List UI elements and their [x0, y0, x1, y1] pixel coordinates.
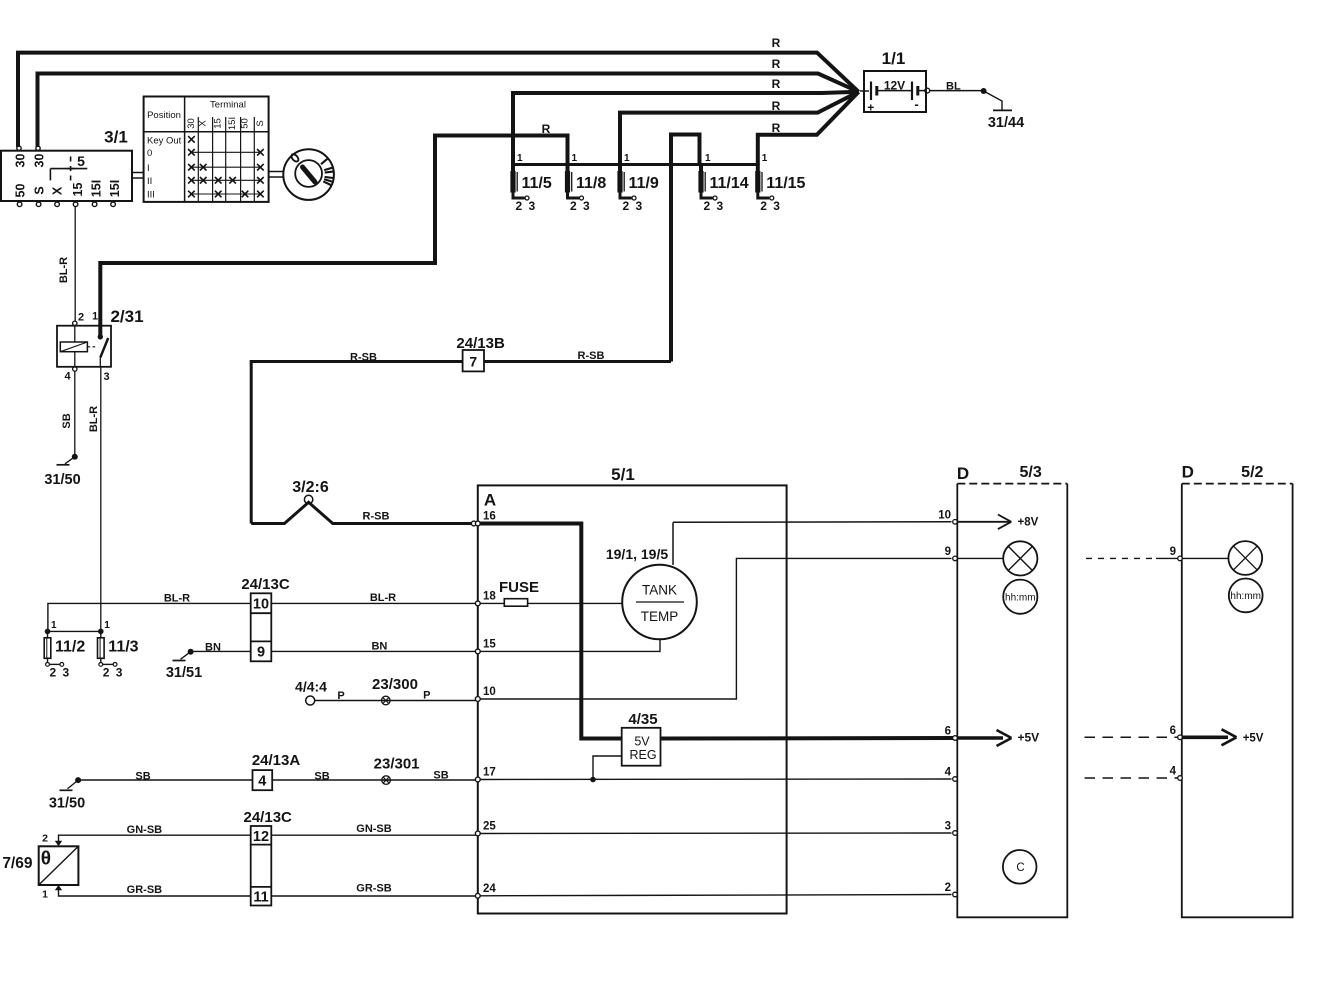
- svg-text:GN-SB: GN-SB: [127, 824, 163, 836]
- svg-text:11/8: 11/8: [576, 175, 606, 192]
- svg-text:1/1: 1/1: [882, 49, 906, 68]
- svg-text:2: 2: [760, 199, 767, 213]
- svg-text:R-SB: R-SB: [363, 511, 390, 523]
- svg-text:GN-SB: GN-SB: [356, 823, 392, 835]
- svg-text:2: 2: [103, 666, 110, 680]
- svg-text:2: 2: [78, 312, 84, 324]
- svg-text:1: 1: [572, 153, 578, 164]
- svg-text:24/13B: 24/13B: [456, 335, 505, 352]
- svg-text:C: C: [1016, 862, 1024, 874]
- svg-text:S: S: [32, 186, 46, 194]
- svg-text:BN: BN: [371, 641, 387, 653]
- svg-text:12: 12: [253, 829, 269, 845]
- svg-text:24/13C: 24/13C: [241, 576, 290, 593]
- svg-text:6: 6: [945, 726, 951, 738]
- svg-text:11/14: 11/14: [710, 175, 749, 192]
- svg-text:0: 0: [147, 148, 152, 159]
- svg-text:10: 10: [938, 509, 951, 521]
- svg-text:+8V: +8V: [1018, 517, 1039, 529]
- svg-text:11/9: 11/9: [629, 175, 659, 192]
- svg-text:1: 1: [104, 620, 110, 631]
- svg-text:5/1: 5/1: [611, 465, 635, 484]
- svg-text:R-SB: R-SB: [350, 352, 377, 364]
- svg-text:4: 4: [65, 371, 72, 383]
- svg-text:3: 3: [63, 666, 70, 680]
- svg-text:10: 10: [253, 597, 269, 613]
- svg-text:3: 3: [717, 199, 724, 213]
- svg-text:7: 7: [469, 354, 477, 370]
- svg-text:24: 24: [483, 883, 496, 895]
- svg-text:2: 2: [704, 199, 711, 213]
- svg-text:Terminal: Terminal: [210, 100, 246, 111]
- svg-text:II: II: [147, 176, 152, 187]
- svg-text:R: R: [772, 121, 781, 135]
- svg-text:19/1, 19/5: 19/1, 19/5: [606, 546, 668, 562]
- svg-text:9: 9: [257, 645, 265, 661]
- svg-text:5: 5: [77, 153, 85, 169]
- svg-text:7/69: 7/69: [2, 855, 33, 872]
- svg-text:2: 2: [516, 199, 523, 213]
- svg-text:50: 50: [240, 118, 251, 129]
- svg-text:15: 15: [483, 638, 496, 650]
- svg-text:1: 1: [705, 153, 711, 164]
- svg-text:1: 1: [624, 153, 630, 164]
- svg-text:2: 2: [42, 833, 48, 845]
- svg-text:11/2: 11/2: [55, 639, 85, 656]
- svg-text:5V: 5V: [634, 735, 650, 749]
- svg-text:15: 15: [213, 118, 224, 129]
- svg-text:15I: 15I: [227, 117, 238, 130]
- svg-text:17: 17: [483, 767, 496, 779]
- svg-text:3: 3: [583, 199, 590, 213]
- svg-text:BL-R: BL-R: [88, 406, 100, 432]
- svg-text:2/31: 2/31: [110, 307, 143, 326]
- svg-text:3/1: 3/1: [104, 128, 128, 147]
- svg-text:-: -: [914, 97, 918, 112]
- svg-text:D: D: [957, 464, 969, 483]
- svg-text:A: A: [484, 491, 496, 510]
- svg-text:Key Out: Key Out: [147, 135, 182, 146]
- svg-text:11/3: 11/3: [108, 639, 138, 656]
- svg-text:5/2: 5/2: [1241, 464, 1263, 481]
- svg-text:BL-R: BL-R: [58, 257, 70, 283]
- svg-text:11/15: 11/15: [766, 175, 805, 192]
- svg-text:25: 25: [483, 821, 496, 833]
- svg-text:9: 9: [945, 546, 951, 558]
- svg-text:3: 3: [636, 199, 643, 213]
- svg-text:24/13A: 24/13A: [252, 752, 301, 769]
- svg-text:3: 3: [104, 371, 110, 383]
- svg-text:3: 3: [116, 666, 123, 680]
- svg-text:+5V: +5V: [1243, 733, 1264, 745]
- svg-text:11/5: 11/5: [522, 175, 552, 192]
- svg-text:III: III: [147, 190, 155, 201]
- svg-text:15: 15: [71, 183, 85, 197]
- svg-text:4/4:4: 4/4:4: [295, 679, 327, 695]
- svg-text:θ: θ: [41, 849, 51, 870]
- svg-text:SB: SB: [61, 413, 73, 428]
- svg-text:I: I: [147, 163, 150, 174]
- svg-text:SB: SB: [314, 770, 329, 782]
- svg-text:31/50: 31/50: [49, 796, 85, 812]
- svg-text:SB: SB: [135, 771, 150, 783]
- svg-text:+5V: +5V: [1018, 731, 1040, 745]
- svg-text:3: 3: [773, 199, 780, 213]
- svg-text:X: X: [198, 120, 209, 127]
- svg-text:2: 2: [570, 199, 577, 213]
- svg-text:1: 1: [517, 153, 523, 164]
- svg-text:1: 1: [92, 311, 98, 323]
- svg-text:2: 2: [623, 199, 630, 213]
- svg-text:R: R: [772, 77, 781, 91]
- svg-text:R: R: [772, 99, 781, 113]
- svg-text:GR-SB: GR-SB: [356, 882, 392, 894]
- svg-text:1: 1: [42, 889, 48, 901]
- svg-text:2: 2: [945, 882, 951, 894]
- svg-text:hh:mm: hh:mm: [1230, 591, 1261, 602]
- svg-text:15I: 15I: [108, 180, 122, 197]
- svg-text:hh:mm: hh:mm: [1005, 592, 1036, 603]
- svg-text:4: 4: [1170, 766, 1177, 778]
- svg-text:6: 6: [1170, 725, 1176, 737]
- svg-text:3: 3: [945, 821, 951, 833]
- svg-text:2: 2: [50, 666, 57, 680]
- svg-text:P: P: [337, 690, 344, 702]
- svg-text:11: 11: [253, 890, 268, 906]
- svg-text:18: 18: [483, 590, 496, 602]
- svg-text:30: 30: [186, 118, 197, 129]
- svg-text:3/2:6: 3/2:6: [292, 479, 329, 496]
- svg-text:5/3: 5/3: [1019, 464, 1041, 481]
- svg-text:TEMP: TEMP: [641, 609, 679, 624]
- svg-text:R: R: [772, 57, 781, 71]
- svg-text:R: R: [542, 122, 551, 136]
- svg-text:31/44: 31/44: [988, 115, 1024, 131]
- svg-text:R-SB: R-SB: [578, 350, 605, 362]
- svg-text:D: D: [1182, 463, 1194, 482]
- svg-text:P: P: [423, 690, 430, 702]
- svg-text:TANK: TANK: [642, 583, 677, 598]
- svg-text:4: 4: [258, 774, 266, 790]
- svg-text:Position: Position: [147, 110, 181, 121]
- svg-text:REG: REG: [629, 748, 656, 762]
- svg-text:15I: 15I: [89, 180, 103, 197]
- svg-text:4/35: 4/35: [628, 711, 657, 728]
- svg-text:3: 3: [529, 199, 536, 213]
- svg-text:1: 1: [51, 620, 57, 631]
- svg-text:16: 16: [483, 511, 496, 523]
- svg-text:23/300: 23/300: [372, 676, 418, 693]
- svg-text:4: 4: [945, 767, 952, 779]
- svg-text:BL: BL: [946, 81, 961, 93]
- svg-text:31/50: 31/50: [44, 472, 80, 488]
- svg-text:S: S: [255, 120, 266, 126]
- svg-text:9: 9: [1170, 546, 1176, 558]
- svg-text:31/51: 31/51: [166, 665, 202, 681]
- svg-text:1: 1: [762, 153, 768, 164]
- svg-text:30: 30: [32, 154, 46, 168]
- svg-text:BL-R: BL-R: [370, 592, 396, 604]
- svg-text:10: 10: [483, 686, 496, 698]
- svg-text:SB: SB: [433, 769, 448, 781]
- svg-text:BL-R: BL-R: [164, 593, 190, 605]
- svg-text:+: +: [867, 101, 874, 115]
- svg-text:X: X: [51, 186, 65, 195]
- svg-text:24/13C: 24/13C: [244, 809, 293, 826]
- svg-text:BN: BN: [205, 642, 221, 654]
- svg-text:FUSE: FUSE: [499, 579, 539, 596]
- svg-text:50: 50: [14, 184, 28, 198]
- svg-text:12V: 12V: [884, 79, 905, 93]
- svg-text:30: 30: [14, 154, 28, 168]
- svg-text:GR-SB: GR-SB: [127, 884, 163, 896]
- svg-text:R: R: [772, 36, 781, 50]
- svg-text:23/301: 23/301: [374, 756, 420, 773]
